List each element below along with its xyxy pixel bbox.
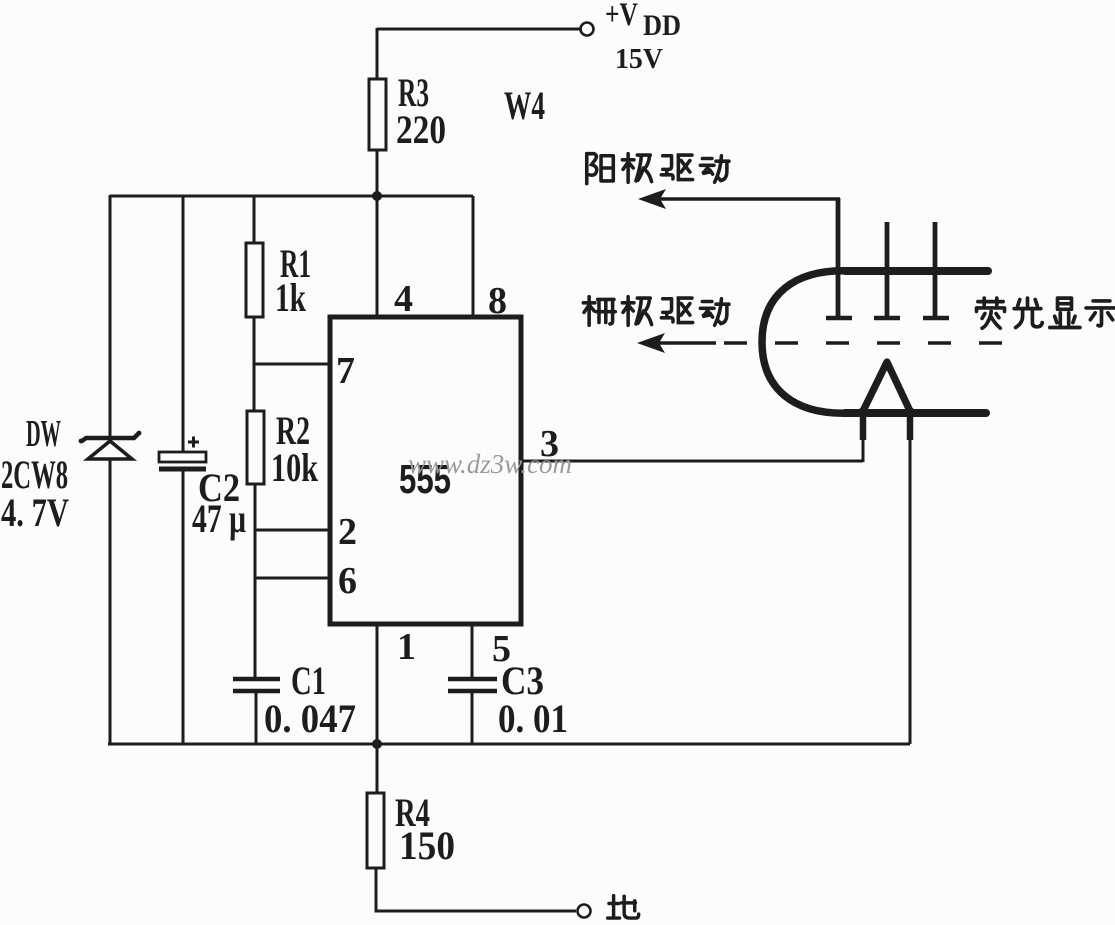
op-amp U1 555 timer box [330,317,521,624]
wire C2 to bottom rail [182,471,185,745]
svg-text:10k: 10k [271,445,319,490]
grid pin 3 [933,222,938,317]
node junction dot bottom rail [372,739,382,749]
resistor R2 body [247,411,264,484]
svg-text:15V: 15V [615,43,663,75]
capacitor C3 top plate [448,677,497,682]
capacitor C2 plus sign [188,437,199,448]
svg-text:1: 1 [397,626,416,668]
terminal ground circle [578,905,591,918]
label anode drive chinese yang ji qu dong [587,154,729,184]
svg-text:DD: DD [643,9,681,42]
node junction dot top rail [372,191,382,201]
wire R2 down to C1 [254,484,257,677]
svg-text:7: 7 [336,350,355,392]
wire pin6 horizontal [255,577,331,580]
capacitor C3 bottom plate [448,689,497,694]
wire R1 branch [253,196,256,243]
tube anode bus bottom [845,409,986,417]
wire top supply rail [110,195,473,198]
zener diode DW symbol [79,431,142,459]
capacitor C1 top plate [233,677,280,682]
label fluorescent display chinese ying guang xian shi [977,298,1115,328]
wire bottom ground rail [108,743,910,746]
wire pin8 drop [472,196,475,319]
svg-text:2: 2 [338,511,357,553]
dashed axis line [724,341,1007,345]
capacitor C2 bottom plate [159,467,206,472]
wire C1 to bottom rail [255,693,258,745]
tube envelope C arc [762,271,852,413]
capacitor C2 top plate [159,452,206,462]
wire pin3 horizontal [521,460,863,463]
capacitor C1 bottom plate [233,689,280,694]
grid foot 3 [923,316,949,321]
svg-text:W4: W4 [504,83,545,128]
label grid drive chinese shan ji qu dong [583,297,729,326]
grid foot 1 [826,316,852,321]
wire zener to bottom rail [109,459,112,745]
grid drive arrow [637,333,716,353]
tube anode bus top [845,267,988,275]
svg-text:4. 7V: 4. 7V [1,490,69,535]
filament lead stubs [860,408,867,440]
svg-text:5: 5 [492,628,511,670]
svg-text:0. 047: 0. 047 [264,696,356,741]
resistor R4 body [367,793,384,868]
svg-text:220: 220 [396,107,446,152]
filament triangle [863,362,910,411]
resistor R3 body [369,79,386,150]
svg-text:6: 6 [338,560,357,602]
wire C2 branch upper [182,196,185,452]
svg-text:8: 8 [488,280,507,322]
grid pin 2 [885,222,890,317]
wire left rail upper [109,195,112,436]
anode drive arrow [638,189,840,209]
wire filament right lead [909,413,912,744]
wire pin4 drop [376,196,379,319]
wire R3 to rail [376,150,379,198]
wire pin1 drop [376,624,379,744]
terminal +VDD circle [581,23,594,36]
label ground chinese di [608,896,639,918]
wire R4 to ground corner [376,868,576,911]
svg-text:1k: 1k [275,275,307,320]
svg-text:4: 4 [394,278,413,320]
svg-text:+V: +V [605,0,638,33]
wire pin3 riser to filament [862,413,865,462]
wire R1 to R2 [253,317,256,411]
svg-text:150: 150 [399,823,455,868]
resistor R1 body [246,243,263,317]
svg-text:0. 01: 0. 01 [498,696,568,741]
svg-text:www.dz3w.com: www.dz3w.com [408,449,572,479]
svg-text:DW: DW [26,413,61,455]
wire C3 to bottom rail [471,693,474,745]
fluorescent display tube [724,198,1007,440]
wire +VDD horizontal [377,28,580,31]
grid pin 1 [836,198,841,317]
wire rail to R4 [376,744,379,793]
grid foot 2 [874,316,900,321]
svg-text:47 μ: 47 μ [192,496,246,541]
wire VDD to R3 [376,28,379,79]
wire pin5 drop [471,624,474,677]
wire pin7 horizontal [254,363,331,366]
wire pin2 horizontal [255,529,331,532]
